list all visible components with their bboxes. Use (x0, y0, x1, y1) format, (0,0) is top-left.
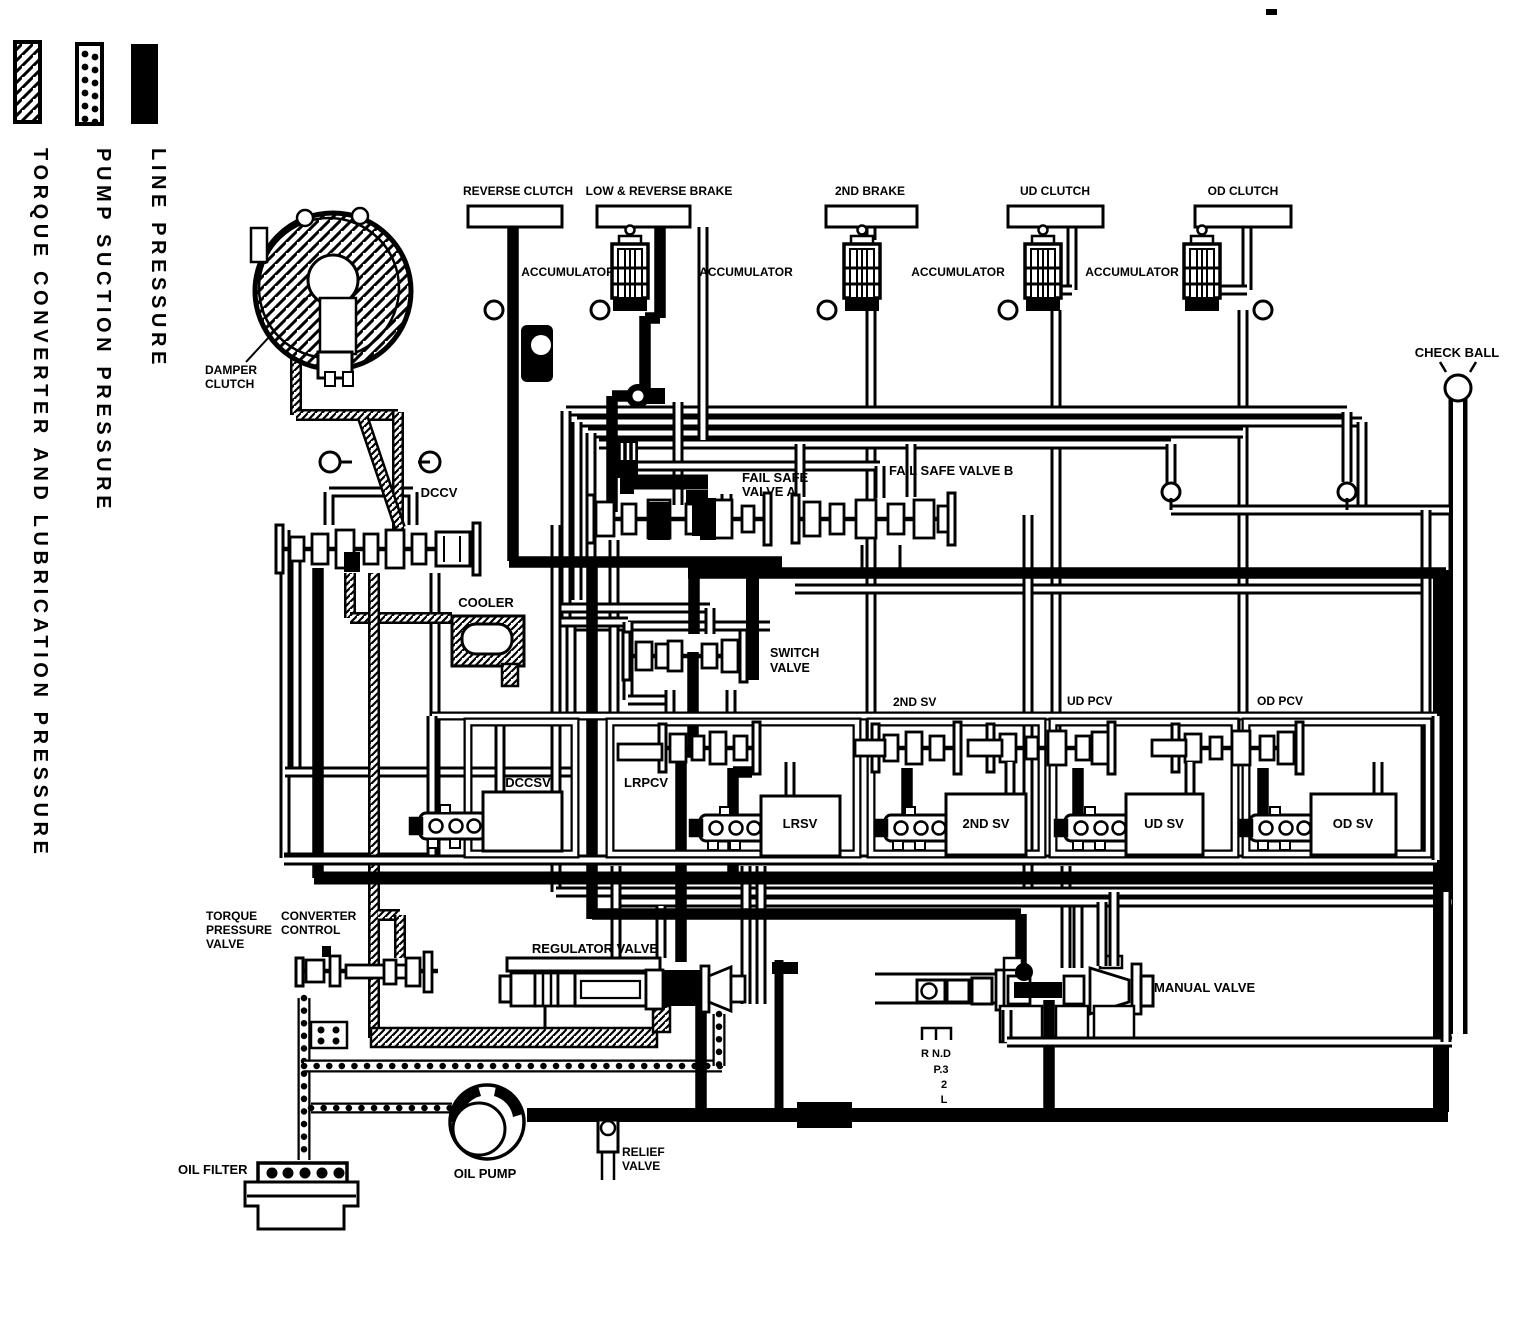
svg-text:L: L (941, 1094, 948, 1106)
svg-text:OD PCV: OD PCV (1257, 694, 1303, 708)
svg-text:R N.D: R N.D (921, 1048, 951, 1060)
svg-text:LOW & REVERSE BRAKE: LOW & REVERSE BRAKE (586, 184, 733, 198)
svg-text:PUMP SUCTION PRESSURE: PUMP SUCTION PRESSURE (92, 148, 114, 513)
svg-text:DCCV: DCCV (421, 485, 458, 500)
svg-text:COOLER: COOLER (458, 595, 514, 610)
svg-text:LRSV: LRSV (783, 816, 818, 831)
svg-text:ACCUMULATOR: ACCUMULATOR (699, 265, 793, 279)
svg-text:SWITCH: SWITCH (770, 646, 819, 660)
svg-text:REGULATOR VALVE: REGULATOR VALVE (532, 941, 658, 956)
svg-text:REVERSE CLUTCH: REVERSE CLUTCH (463, 184, 573, 198)
svg-text:ACCUMULATOR: ACCUMULATOR (1085, 265, 1179, 279)
svg-text:CONTROL: CONTROL (281, 923, 340, 937)
svg-text:PRESSURE: PRESSURE (206, 923, 272, 937)
svg-text:2ND BRAKE: 2ND BRAKE (835, 184, 905, 198)
svg-text:LINE PRESSURE: LINE PRESSURE (147, 148, 169, 369)
svg-text:OD CLUTCH: OD CLUTCH (1208, 184, 1279, 198)
svg-text:TORQUE CONVERTER AND LUBRICATI: TORQUE CONVERTER AND LUBRICATION PRESSUR… (29, 148, 51, 858)
svg-text:FAIL SAFE VALVE B: FAIL SAFE VALVE B (889, 463, 1013, 478)
svg-text:OIL PUMP: OIL PUMP (454, 1166, 517, 1181)
svg-text:CONVERTER: CONVERTER (281, 909, 357, 923)
svg-text:VALVE: VALVE (622, 1159, 660, 1173)
svg-text:MANUAL VALVE: MANUAL VALVE (1154, 980, 1255, 995)
svg-text:CLUTCH: CLUTCH (205, 377, 254, 391)
svg-text:RELIEF: RELIEF (622, 1145, 665, 1159)
svg-text:UD PCV: UD PCV (1067, 694, 1112, 708)
svg-text:VALVE: VALVE (206, 937, 244, 951)
svg-text:VALVE: VALVE (770, 661, 810, 675)
svg-text:DAMPER: DAMPER (205, 363, 257, 377)
svg-text:DCCSV: DCCSV (505, 775, 551, 790)
svg-text:TORQUE: TORQUE (206, 909, 257, 923)
svg-text:ACCUMULATOR: ACCUMULATOR (911, 265, 1005, 279)
svg-text:2: 2 (941, 1079, 947, 1091)
svg-text:CHECK BALL: CHECK BALL (1415, 345, 1500, 360)
svg-text:OIL FILTER: OIL FILTER (178, 1162, 248, 1177)
svg-text:P.3: P.3 (933, 1064, 948, 1076)
svg-text:2ND SV: 2ND SV (963, 816, 1010, 831)
svg-text:FAIL SAFE: FAIL SAFE (742, 470, 809, 485)
svg-text:LRPCV: LRPCV (624, 775, 668, 790)
svg-text:2ND SV: 2ND SV (893, 695, 936, 709)
svg-text:UD CLUTCH: UD CLUTCH (1020, 184, 1090, 198)
svg-text:ACCUMULATOR: ACCUMULATOR (521, 265, 615, 279)
svg-text:UD SV: UD SV (1144, 816, 1184, 831)
svg-text:OD SV: OD SV (1333, 816, 1374, 831)
